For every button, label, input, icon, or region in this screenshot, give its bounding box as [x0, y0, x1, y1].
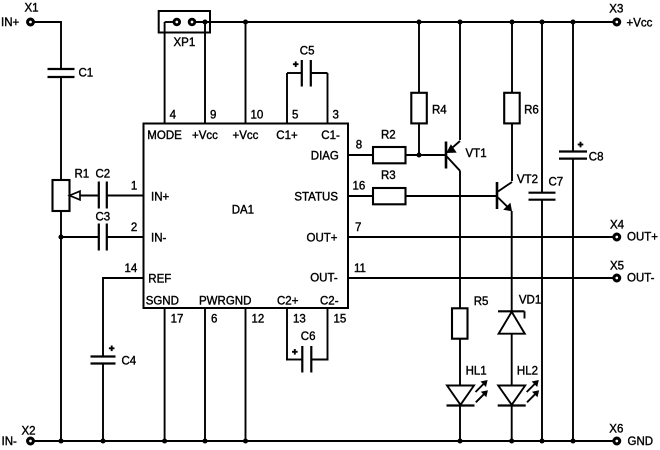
- svg-text:R2: R2: [381, 129, 396, 141]
- wire C8 bottom to bus: [572, 159, 574, 441]
- wire R1 down to bottom bus: [60, 211, 62, 441]
- svg-text:13: 13: [293, 314, 306, 326]
- pin 16 wire to R3: [348, 195, 373, 197]
- svg-text:OUT+: OUT+: [627, 232, 658, 244]
- pin 10 stub: [245, 22, 247, 124]
- resistor R1 (potentiometer): [53, 168, 90, 211]
- resistor R2: [373, 129, 406, 163]
- wire top bus from XP1 to X3: [192, 21, 613, 23]
- capacitor C6 polarized: [286, 331, 329, 373]
- wire C1 to R1: [60, 77, 62, 180]
- capacitor C5 polarized: [287, 45, 328, 86]
- node R4/base junction: [416, 152, 421, 157]
- svg-text:X1: X1: [25, 2, 39, 14]
- svg-text:7: 7: [355, 222, 361, 234]
- svg-text:R1: R1: [75, 168, 90, 180]
- wire bottom bus X2 to X6: [34, 440, 613, 442]
- connector XP1: [159, 11, 210, 49]
- pin 8 wire to R2: [348, 154, 373, 156]
- svg-text:C6: C6: [301, 331, 316, 343]
- wire VT1 collector down to R5: [459, 171, 461, 308]
- LED HL2: [498, 365, 539, 405]
- wire VT2 emitter down to VD1: [511, 211, 513, 311]
- wire HL1 to bus: [459, 406, 461, 442]
- svg-text:GND: GND: [628, 436, 654, 448]
- svg-text:OUT-: OUT-: [627, 273, 655, 285]
- pin 6 stub to bus: [204, 308, 206, 441]
- svg-text:10: 10: [251, 110, 264, 122]
- svg-text:12: 12: [252, 314, 265, 326]
- node bus pin17: [162, 438, 167, 443]
- svg-text:C2: C2: [96, 168, 111, 180]
- svg-text:15: 15: [334, 314, 347, 326]
- wire X1 lead: [34, 21, 61, 23]
- terminal X6: [614, 438, 620, 444]
- svg-text:HL1: HL1: [466, 365, 487, 377]
- svg-text:IN+: IN+: [151, 192, 170, 204]
- svg-text:C2+: C2+: [277, 296, 299, 308]
- capacitor C2: [96, 168, 111, 208]
- wire R6 top: [511, 22, 513, 92]
- node bus R6 top: [509, 19, 514, 24]
- capacitor C3: [96, 212, 111, 251]
- node pin9 top: [202, 19, 207, 24]
- svg-text:C5: C5: [300, 45, 315, 57]
- capacitor C8 polarized: [559, 142, 604, 164]
- node bus C8 top: [570, 19, 575, 24]
- wire R3 to VT2 base: [406, 195, 497, 197]
- svg-text:+Vcc: +Vcc: [233, 130, 259, 142]
- svg-text:IN-: IN-: [2, 436, 18, 448]
- wire C3 to pin2: [107, 236, 144, 238]
- node R1/C3 junction: [58, 234, 63, 239]
- svg-text:2: 2: [131, 222, 137, 234]
- capacitor C4 polarized: [91, 346, 137, 368]
- svg-text:6: 6: [211, 314, 217, 326]
- svg-text:+Vcc: +Vcc: [627, 17, 653, 29]
- svg-text:SGND: SGND: [146, 296, 179, 308]
- wire OUT- pin11 to X5: [348, 277, 613, 279]
- resistor R5: [452, 296, 488, 339]
- svg-text:C3: C3: [96, 212, 111, 224]
- node bus R4 top: [416, 19, 421, 24]
- svg-text:8: 8: [356, 140, 362, 152]
- IC pin labels left column: [148, 192, 171, 286]
- svg-text:1: 1: [131, 181, 137, 193]
- node bus pin12: [243, 438, 248, 443]
- svg-text:C1-: C1-: [321, 130, 340, 142]
- svg-text:C2-: C2-: [320, 296, 339, 308]
- wire R1 wiper to C2: [80, 195, 98, 197]
- node bus C7 top: [539, 19, 544, 24]
- wire OUT+ pin7 to X4: [348, 236, 613, 238]
- wire R6 bottom to VT2 collector: [511, 123, 513, 181]
- svg-text:IN-: IN-: [151, 233, 167, 245]
- wire R4 top: [418, 22, 420, 92]
- svg-text:R4: R4: [432, 105, 447, 117]
- capacitor C7: [529, 177, 564, 200]
- terminal X1: [28, 19, 34, 25]
- node bus C7 bottom: [539, 438, 544, 443]
- svg-text:OUT+: OUT+: [307, 233, 338, 245]
- wire C8 top: [572, 22, 574, 152]
- wire REF pin14 to C4: [103, 278, 144, 356]
- wire X1 down to C1: [60, 21, 62, 69]
- capacitor C1: [48, 67, 94, 79]
- svg-text:C4: C4: [122, 355, 137, 367]
- svg-text:14: 14: [125, 263, 138, 275]
- svg-text:4: 4: [170, 110, 177, 122]
- pin 13 stub: [286, 308, 288, 361]
- svg-text:5: 5: [292, 110, 298, 122]
- svg-text:IN+: IN+: [1, 17, 20, 29]
- wire C7 bottom to bus: [541, 200, 543, 441]
- svg-text:R6: R6: [524, 105, 539, 117]
- svg-text:C1: C1: [79, 67, 94, 79]
- svg-text:9: 9: [210, 110, 216, 122]
- LED HL1: [447, 365, 488, 405]
- svg-text:3: 3: [333, 110, 339, 122]
- svg-text:X3: X3: [609, 3, 623, 15]
- wire VT1 emitter from bus: [459, 22, 461, 140]
- wire R4 bottom to base node: [418, 123, 420, 155]
- resistor R6: [504, 93, 539, 124]
- wire HL2 to bus: [511, 406, 513, 442]
- IC pin labels top row: [147, 130, 340, 142]
- node bus HL1: [457, 438, 462, 443]
- terminal X2: [28, 438, 34, 444]
- wire C2 to pin1: [107, 195, 144, 197]
- pin 15 stub: [327, 308, 329, 361]
- IC pin labels bottom row: [146, 296, 339, 308]
- node bus pin6: [202, 438, 207, 443]
- resistor R3: [373, 170, 406, 204]
- svg-text:X6: X6: [609, 423, 623, 435]
- svg-text:VT2: VT2: [517, 174, 538, 186]
- IC pin labels right column: [294, 151, 339, 285]
- svg-text:VD1: VD1: [519, 294, 541, 306]
- pin 4 stub: [164, 22, 166, 124]
- svg-text:HL2: HL2: [517, 365, 538, 377]
- svg-text:R3: R3: [381, 170, 396, 182]
- transistor VT1 (PNP): [446, 141, 487, 171]
- svg-text:DA1: DA1: [232, 205, 254, 217]
- node bus HL2: [509, 438, 514, 443]
- node bus R1: [58, 438, 63, 443]
- wire R5 to HL1: [459, 339, 461, 386]
- diode VD1 (zener): [498, 294, 541, 333]
- wire VD1 to HL2: [511, 334, 513, 386]
- pin 3 stub: [327, 73, 329, 124]
- svg-text:REF: REF: [148, 274, 171, 286]
- transistor VT2 (NPN): [497, 174, 538, 211]
- svg-text:DIAG: DIAG: [311, 151, 339, 163]
- svg-text:PWRGND: PWRGND: [199, 296, 251, 308]
- svg-text:16: 16: [353, 181, 366, 193]
- svg-text:STATUS: STATUS: [294, 192, 338, 204]
- svg-text:X4: X4: [610, 220, 625, 232]
- wire C4 to bottom bus: [102, 364, 104, 442]
- node bus VT1 emitter: [457, 19, 462, 24]
- op-amp U1 / IC DA1 body: [144, 124, 349, 309]
- wire R2 to VT1 base: [406, 154, 446, 156]
- pin 12 stub to bus: [245, 308, 247, 441]
- svg-text:C8: C8: [589, 152, 604, 164]
- wire junction to C3: [61, 236, 98, 238]
- svg-text:X5: X5: [610, 261, 624, 273]
- svg-text:17: 17: [171, 314, 184, 326]
- node pin10 top: [243, 19, 248, 24]
- svg-text:+Vcc: +Vcc: [192, 130, 218, 142]
- pin 17 stub to bus: [164, 308, 166, 441]
- node bus C8 bottom: [570, 438, 575, 443]
- terminal X4: [614, 234, 620, 240]
- pin 9 stub: [204, 22, 206, 124]
- svg-text:C7: C7: [549, 177, 564, 189]
- svg-text:X2: X2: [22, 426, 36, 438]
- wire C7 top: [541, 22, 543, 193]
- svg-text:11: 11: [354, 263, 366, 275]
- pin 5 stub: [286, 73, 288, 124]
- terminal X5: [614, 275, 620, 281]
- node bus C4: [100, 438, 105, 443]
- svg-text:R5: R5: [474, 296, 489, 308]
- svg-text:C1+: C1+: [276, 130, 298, 142]
- svg-text:XP1: XP1: [174, 37, 196, 49]
- svg-text:MODE: MODE: [147, 130, 182, 142]
- terminal X3: [614, 19, 620, 25]
- svg-text:OUT-: OUT-: [310, 273, 338, 285]
- resistor R4: [411, 93, 447, 124]
- svg-text:VT1: VT1: [466, 148, 487, 160]
